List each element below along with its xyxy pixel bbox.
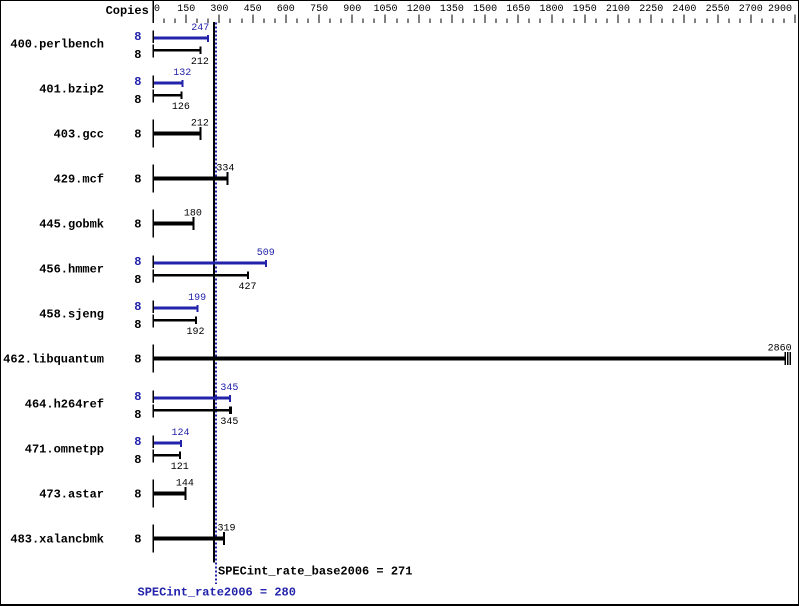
svg-text:429.mcf: 429.mcf [54,173,104,187]
svg-text:300: 300 [210,4,228,15]
svg-text:8: 8 [134,435,141,449]
svg-text:126: 126 [172,102,190,113]
svg-text:8: 8 [134,48,141,62]
svg-text:509: 509 [257,248,275,259]
svg-text:Copies: Copies [106,4,149,18]
base bar 462.libquantum [153,345,791,373]
svg-text:8: 8 [134,93,141,107]
base bar 400.perlbench [153,44,202,57]
base bar 429.mcf [153,165,229,193]
peak bar 401.bzip2 [153,76,184,88]
svg-text:427: 427 [238,282,256,293]
svg-text:471.omnetpp: 471.omnetpp [25,443,104,457]
svg-text:8: 8 [134,75,141,89]
peak bar 400.perlbench [153,31,210,43]
peak bar 464.h264ref [153,391,231,403]
svg-text:8: 8 [134,533,141,547]
peak result reference line (280, dotted) [215,22,217,583]
svg-text:319: 319 [217,523,235,534]
svg-text:8: 8 [134,408,141,422]
svg-text:1800: 1800 [539,4,563,15]
svg-text:464.h264ref: 464.h264ref [25,398,104,412]
svg-text:8: 8 [134,453,141,467]
svg-text:2900: 2900 [768,4,792,15]
svg-text:1950: 1950 [573,4,597,15]
svg-text:1350: 1350 [440,4,464,15]
svg-text:8: 8 [134,390,141,404]
svg-text:458.sjeng: 458.sjeng [39,308,104,322]
svg-text:124: 124 [171,428,189,439]
svg-text:8: 8 [134,353,141,367]
base bar 458.sjeng [153,314,197,327]
svg-text:8: 8 [134,30,141,44]
svg-text:2400: 2400 [672,4,696,15]
svg-text:150: 150 [177,4,195,15]
svg-text:199: 199 [188,293,206,304]
svg-text:400.perlbench: 400.perlbench [10,38,104,52]
svg-text:8: 8 [134,173,141,187]
svg-text:8: 8 [134,300,141,314]
svg-text:8: 8 [134,273,141,287]
base bar 401.bzip2 [153,89,183,102]
svg-text:345: 345 [220,417,238,428]
svg-text:8: 8 [134,318,141,332]
svg-text:334: 334 [216,163,234,174]
svg-text:345: 345 [220,383,238,394]
peak bar 456.hmmer [153,256,268,268]
svg-text:1650: 1650 [506,4,530,15]
base bar 456.hmmer [153,269,249,282]
peak bar 471.omnetpp [153,436,182,448]
base bar 473.astar [153,480,187,508]
axis origin line [153,0,154,23]
svg-text:900: 900 [343,4,361,15]
axis scale labels [154,4,792,15]
svg-text:462.libquantum: 462.libquantum [3,353,104,367]
svg-text:212: 212 [191,57,209,68]
svg-text:403.gcc: 403.gcc [54,128,104,142]
svg-text:2700: 2700 [739,4,763,15]
svg-text:750: 750 [310,4,328,15]
svg-text:2250: 2250 [639,4,663,15]
svg-text:401.bzip2: 401.bzip2 [39,83,104,97]
svg-text:445.gobmk: 445.gobmk [39,218,104,232]
svg-text:600: 600 [277,4,295,15]
svg-text:8: 8 [134,488,141,502]
svg-text:0: 0 [154,4,160,15]
base result reference line (271) [213,22,215,562]
svg-text:8: 8 [134,255,141,269]
peak bar 458.sjeng [153,301,199,313]
svg-text:456.hmmer: 456.hmmer [39,263,104,277]
svg-text:483.xalancbmk: 483.xalancbmk [10,533,104,547]
svg-text:473.astar: 473.astar [39,488,104,502]
axis tick marks [164,15,796,24]
base bar 403.gcc [153,120,202,148]
base bar 471.omnetpp [153,449,182,462]
svg-text:121: 121 [171,462,189,473]
svg-text:SPECint_rate2006 = 280: SPECint_rate2006 = 280 [138,586,296,600]
base bar 445.gobmk [153,210,195,238]
svg-text:1050: 1050 [373,4,397,15]
base bar 464.h264ref [153,404,232,417]
svg-text:450: 450 [244,4,262,15]
svg-text:8: 8 [134,128,141,142]
svg-text:247: 247 [191,23,209,34]
svg-text:2100: 2100 [606,4,630,15]
svg-text:SPECint_rate_base2006 = 271: SPECint_rate_base2006 = 271 [218,565,412,579]
base bar 483.xalancbmk [153,525,225,553]
svg-text:132: 132 [173,68,191,79]
svg-text:8: 8 [134,218,141,232]
svg-text:2550: 2550 [706,4,730,15]
svg-text:192: 192 [186,327,204,338]
svg-text:1200: 1200 [407,4,431,15]
svg-text:1500: 1500 [473,4,497,15]
